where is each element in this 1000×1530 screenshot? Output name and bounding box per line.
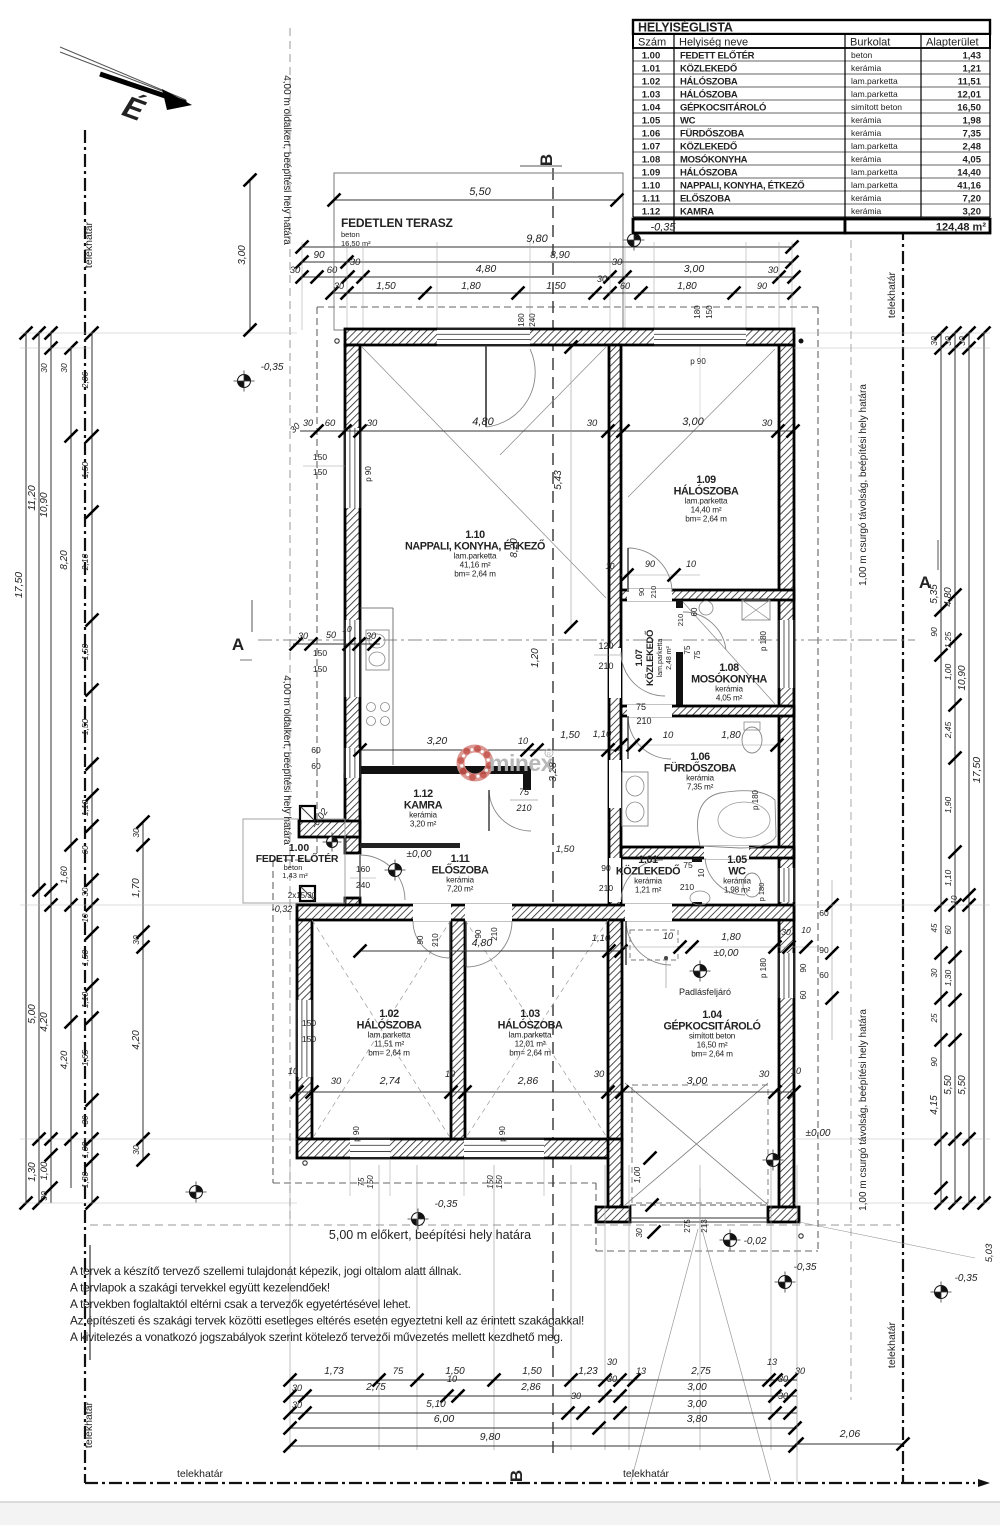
svg-text:HÁLÓSZOBA: HÁLÓSZOBA [680,88,738,100]
svg-text:30: 30 [768,265,779,276]
svg-text:-0,35: -0,35 [955,1273,978,1284]
svg-text:150: 150 [313,452,327,462]
svg-text:1,65: 1,65 [80,1049,90,1066]
svg-text:150: 150 [302,1034,316,1044]
svg-text:4,80: 4,80 [472,937,493,949]
svg-text:210: 210 [676,614,685,627]
svg-text:210: 210 [599,883,613,893]
svg-text:30: 30 [366,631,376,641]
svg-text:30: 30 [367,418,378,429]
svg-text:A kivitelezés a vonatkozó jogs: A kivitelezés a vonatkozó jogszabályok s… [70,1330,563,1344]
svg-text:A tervek a készítő tervező sze: A tervek a készítő tervező szellemi tula… [70,1264,461,1278]
svg-text:Helyiség neve: Helyiség neve [679,37,748,49]
svg-text:10: 10 [697,868,706,877]
svg-text:90: 90 [799,963,808,972]
svg-text:lam.parketta: lam.parketta [851,180,898,190]
svg-text:10: 10 [663,730,674,741]
svg-text:10: 10 [288,1066,298,1076]
svg-text:1.04: 1.04 [702,1009,722,1021]
svg-text:1,10: 1,10 [592,933,611,944]
svg-text:210: 210 [598,661,613,671]
svg-text:13: 13 [767,1357,777,1367]
svg-text:1,73: 1,73 [324,1366,344,1377]
svg-text:simított beton: simított beton [851,102,902,112]
svg-text:-0,35: -0,35 [650,222,676,234]
svg-text:30: 30 [81,887,90,896]
svg-text:1.06: 1.06 [690,751,710,763]
svg-text:1.08: 1.08 [719,662,739,674]
svg-text:lam.parketta: lam.parketta [851,76,898,86]
svg-text:30: 30 [930,968,939,977]
svg-text:p 90: p 90 [364,466,373,482]
svg-text:30: 30 [303,418,313,428]
svg-text:KÖZLEKEDŐ: KÖZLEKEDŐ [680,140,737,152]
svg-text:kerámia: kerámia [409,811,437,820]
svg-text:13: 13 [636,1366,646,1376]
svg-text:1,30: 1,30 [27,1162,38,1182]
svg-text:-0,35: -0,35 [261,362,284,373]
svg-text:kerámia: kerámia [851,154,882,164]
svg-text:10: 10 [791,1066,801,1076]
svg-text:1,25: 1,25 [943,631,953,648]
svg-text:10: 10 [81,913,90,922]
svg-text:Alapterület: Alapterület [926,37,979,49]
svg-text:1,43 m²: 1,43 m² [282,871,308,880]
svg-text:75: 75 [683,645,692,654]
svg-text:30: 30 [131,1145,141,1155]
svg-text:60: 60 [311,761,321,771]
svg-text:30: 30 [594,1069,605,1080]
svg-text:60: 60 [944,925,953,934]
svg-text:A: A [232,635,244,654]
svg-text:30: 30 [587,418,598,429]
svg-text:60: 60 [819,970,829,980]
svg-text:A tervlapok a szakági tervekke: A tervlapok a szakági tervekkel együtt k… [70,1281,330,1295]
svg-text:9,80: 9,80 [480,1431,501,1443]
svg-text:30: 30 [781,927,791,937]
svg-text:1.07: 1.07 [634,649,645,666]
svg-text:30: 30 [778,1391,788,1401]
svg-text:2,86: 2,86 [517,1075,539,1087]
svg-text:1,20: 1,20 [530,648,541,668]
svg-text:2,86: 2,86 [520,1382,541,1393]
svg-text:10,90: 10,90 [39,492,50,517]
svg-text:telekhatár: telekhatár [623,1468,670,1480]
svg-text:5,50: 5,50 [957,1075,968,1095]
svg-text:10: 10 [606,562,615,571]
svg-text:FÜRDŐSZOBA: FÜRDŐSZOBA [680,127,744,139]
svg-text:150: 150 [495,1175,504,1189]
svg-text:3,00: 3,00 [687,1399,707,1410]
svg-text:KAMRA: KAMRA [680,206,714,217]
svg-text:90: 90 [645,559,655,569]
svg-text:30: 30 [331,1076,342,1087]
svg-text:7,20 m²: 7,20 m² [447,885,474,894]
svg-text:10: 10 [686,559,696,569]
svg-text:90: 90 [601,863,611,873]
svg-text:90: 90 [929,1057,939,1067]
svg-text:3,00: 3,00 [687,1382,707,1393]
svg-text:30: 30 [298,631,308,641]
svg-text:lam.parketta: lam.parketta [454,552,497,561]
svg-text:1,50: 1,50 [80,643,90,660]
svg-text:30: 30 [59,363,69,373]
svg-text:10,90: 10,90 [957,665,968,690]
svg-text:210: 210 [515,803,531,813]
svg-text:30: 30 [759,1069,770,1080]
svg-text:1,00: 1,00 [943,663,953,680]
svg-text:41,16 m²: 41,16 m² [460,561,491,570]
svg-text:30: 30 [607,1374,617,1384]
svg-text:kerámia: kerámia [723,877,751,886]
svg-text:telekhatár: telekhatár [886,1321,898,1368]
svg-text:1.05: 1.05 [642,115,661,126]
svg-text:30: 30 [795,1366,805,1376]
svg-text:1,10: 1,10 [80,799,90,816]
svg-text:1.09: 1.09 [642,167,661,178]
svg-text:4,05: 4,05 [963,154,982,165]
svg-text:kerámia: kerámia [686,774,714,783]
svg-text:75: 75 [393,1366,404,1377]
svg-text:2,48 m²: 2,48 m² [666,645,673,669]
svg-text:1.01: 1.01 [642,63,661,74]
svg-text:Szám: Szám [638,37,666,49]
svg-text:5,50: 5,50 [943,1075,954,1095]
svg-text:1.11: 1.11 [451,853,470,865]
svg-text:telekhatár: telekhatár [886,271,898,318]
svg-text:30: 30 [292,1400,302,1410]
svg-text:7,20: 7,20 [963,193,982,204]
svg-text:11,20: 11,20 [26,485,38,511]
svg-text:2,48: 2,48 [963,141,982,152]
svg-text:p 180: p 180 [759,957,768,978]
svg-text:90: 90 [313,250,325,261]
svg-text:A tervekben foglaltaktól eltér: A tervekben foglaltaktól eltérni csak a … [70,1297,411,1311]
svg-text:beton: beton [341,230,360,239]
svg-text:1,10: 1,10 [593,729,612,740]
svg-text:1,80: 1,80 [721,932,741,943]
svg-text:10: 10 [663,931,673,941]
svg-text:8,90: 8,90 [550,250,570,261]
svg-text:3,80: 3,80 [687,1413,708,1425]
svg-text:lam.parketta: lam.parketta [851,167,898,177]
svg-text:1.01: 1.01 [638,854,658,866]
svg-text:14,40 m²: 14,40 m² [691,506,722,515]
svg-text:KÖZLEKEDŐ: KÖZLEKEDŐ [644,630,656,686]
svg-text:kerámia: kerámia [851,206,882,216]
svg-text:30: 30 [612,257,623,268]
svg-text:1.02: 1.02 [379,1008,399,1020]
svg-text:4,20: 4,20 [39,1012,50,1032]
svg-text:1.10: 1.10 [465,529,485,541]
svg-text:5,43: 5,43 [553,470,564,490]
svg-text:4,05 m²: 4,05 m² [716,694,743,703]
svg-text:1,21 m²: 1,21 m² [635,886,662,895]
svg-text:60: 60 [325,418,336,429]
svg-text:1,90: 1,90 [943,796,953,813]
svg-text:3,20: 3,20 [427,735,448,747]
svg-text:7,35: 7,35 [963,128,982,139]
svg-text:1.03: 1.03 [642,89,661,100]
svg-text:kerámia: kerámia [851,128,882,138]
svg-text:30: 30 [290,265,301,276]
svg-text:1,50: 1,50 [376,281,396,292]
svg-text:1,50: 1,50 [560,730,580,741]
svg-text:30: 30 [957,336,967,346]
svg-text:p 90: p 90 [690,357,706,366]
svg-text:150: 150 [486,1175,495,1189]
svg-text:30: 30 [943,336,953,346]
svg-text:10: 10 [950,895,959,904]
svg-text:HÁLÓSZOBA: HÁLÓSZOBA [680,166,738,178]
svg-text:60: 60 [81,845,90,854]
svg-text:6,00: 6,00 [434,1413,455,1425]
svg-text:50: 50 [326,630,336,640]
svg-text:KÖZLEKEDŐ: KÖZLEKEDŐ [680,62,737,74]
svg-text:1.08: 1.08 [642,154,661,165]
svg-text:Padlásfeljáró: Padlásfeljáró [679,987,731,997]
svg-text:2,75: 2,75 [365,1382,386,1393]
svg-text:bm= 2,64 m: bm= 2,64 m [509,1049,551,1058]
svg-text:90: 90 [416,935,425,944]
svg-text:30: 30 [292,1383,302,1393]
svg-text:bm= 2,64 m: bm= 2,64 m [685,515,727,524]
svg-text:9,80: 9,80 [526,233,548,245]
svg-text:1.04: 1.04 [642,102,661,113]
svg-text:beton: beton [851,50,873,60]
svg-text:kerámia: kerámia [715,685,743,694]
svg-text:1,23: 1,23 [578,1366,598,1377]
svg-text:210: 210 [680,882,694,892]
svg-text:210: 210 [636,716,651,726]
svg-text:275: 275 [683,1219,692,1233]
svg-text:1,00 m csurgó távolság, beépít: 1,00 m csurgó távolság, beépítési hely h… [858,1009,869,1211]
svg-text:2,10: 2,10 [80,553,90,571]
svg-text:1,70: 1,70 [131,878,142,898]
svg-text:4,20: 4,20 [131,1030,142,1050]
svg-text:90: 90 [757,281,767,291]
svg-text:2,06: 2,06 [80,371,90,389]
svg-text:1,50: 1,50 [80,461,90,478]
svg-text:41,16: 41,16 [957,180,981,191]
svg-text:1,50: 1,50 [80,949,90,966]
svg-text:-0,02: -0,02 [744,1236,767,1247]
svg-text:14,40: 14,40 [957,167,981,178]
svg-text:17,50: 17,50 [971,757,983,783]
svg-text:30: 30 [929,336,939,346]
svg-text:1,00: 1,00 [632,1166,642,1183]
svg-text:10: 10 [801,925,811,935]
svg-text:30: 30 [607,1357,617,1367]
svg-text:1.10: 1.10 [642,180,661,191]
svg-text:60: 60 [311,745,321,755]
svg-text:1.06: 1.06 [642,128,661,139]
svg-text:p 90: p 90 [498,1126,507,1142]
svg-text:30: 30 [131,828,141,838]
svg-text:11,51 m²: 11,51 m² [374,1040,405,1049]
svg-text:p 180: p 180 [759,630,768,651]
svg-text:5,10: 5,10 [426,1399,446,1410]
svg-text:8,20: 8,20 [509,538,520,558]
svg-text:160: 160 [356,864,370,874]
svg-text:1,50: 1,50 [80,718,90,735]
svg-text:60: 60 [799,990,808,999]
svg-text:1,80: 1,80 [677,281,697,292]
svg-text:8,20: 8,20 [59,550,70,570]
svg-text:lam.parketta: lam.parketta [368,1031,411,1040]
svg-text:1,80: 1,80 [461,281,481,292]
svg-text:150: 150 [313,664,327,674]
svg-text:kerámia: kerámia [446,876,474,885]
svg-text:3,20 m²: 3,20 m² [410,820,437,829]
svg-text:1.07: 1.07 [642,141,661,152]
svg-text:150: 150 [366,1175,375,1189]
svg-text:210: 210 [431,933,440,947]
svg-text:150: 150 [313,648,327,658]
svg-text:1.02: 1.02 [642,76,661,87]
svg-text:kerámia: kerámia [634,877,662,886]
svg-text:4,80: 4,80 [472,416,494,428]
svg-text:p 90: p 90 [352,1126,361,1142]
svg-text:±0,00: ±0,00 [714,948,739,959]
svg-text:1.03: 1.03 [520,1008,540,1020]
svg-text:3,00: 3,00 [237,245,248,265]
svg-text:1.05: 1.05 [727,854,747,866]
svg-text:1,00: 1,00 [80,1141,90,1158]
svg-text:Az építészeti és szakági terve: Az építészeti és szakági tervek közötti … [70,1314,584,1328]
svg-text:3,00: 3,00 [682,416,704,428]
svg-text:1,30: 1,30 [943,969,953,986]
svg-text:1,10: 1,10 [80,991,90,1008]
svg-text:WC: WC [680,115,696,126]
svg-text:1,21: 1,21 [963,63,982,74]
svg-text:4,00 m oldalkert, beépítési he: 4,00 m oldalkert, beépítési hely határa [281,675,292,845]
svg-text:210: 210 [649,586,658,599]
svg-text:12,01 m²: 12,01 m² [515,1040,546,1049]
svg-text:30: 30 [597,274,607,284]
svg-text:180: 180 [517,313,526,327]
svg-text:R: R [547,752,551,758]
svg-text:HÁLÓSZOBA: HÁLÓSZOBA [680,75,738,87]
svg-text:minex: minex [489,750,554,776]
svg-text:FEDETT ELŐTÉR: FEDETT ELŐTÉR [680,49,755,61]
svg-text:75: 75 [357,1177,366,1186]
svg-text:10: 10 [445,1069,455,1079]
svg-text:75: 75 [636,702,646,712]
svg-text:kerámia: kerámia [851,115,882,125]
svg-text:75: 75 [683,860,693,870]
svg-text:FEDETLEN TERASZ: FEDETLEN TERASZ [341,216,453,230]
svg-text:HELYISÉGLISTA: HELYISÉGLISTA [638,20,733,35]
svg-text:1.12: 1.12 [642,206,661,217]
svg-text:1.12: 1.12 [413,788,433,800]
svg-text:213: 213 [700,1219,709,1233]
svg-text:telekhatár: telekhatár [83,221,95,268]
svg-text:16,50 m²: 16,50 m² [697,1041,728,1050]
svg-text:1,50: 1,50 [522,1366,542,1377]
svg-text:30: 30 [81,1115,90,1124]
svg-text:MOSÓKONYHA: MOSÓKONYHA [680,153,748,165]
svg-text:A: A [919,573,931,592]
svg-text:5,50: 5,50 [469,186,491,198]
svg-text:1,00: 1,00 [39,1161,50,1180]
svg-text:2,06: 2,06 [839,1428,861,1440]
svg-text:±0,00: ±0,00 [806,1128,831,1139]
svg-text:180: 180 [693,305,702,319]
svg-text:lam.parketta: lam.parketta [685,497,728,506]
svg-text:10: 10 [518,736,528,746]
svg-text:1,80: 1,80 [721,730,741,741]
svg-text:1,10: 1,10 [943,869,953,886]
svg-text:p 180: p 180 [757,883,766,902]
svg-text:3,20: 3,20 [963,206,982,217]
svg-text:telekhatár: telekhatár [83,1401,95,1448]
svg-text:2,45: 2,45 [943,721,953,739]
svg-text:p 180: p 180 [751,789,760,810]
svg-text:30: 30 [778,1374,788,1384]
svg-text:30: 30 [39,1191,49,1201]
svg-text:10: 10 [447,1374,457,1384]
svg-text:25: 25 [930,1013,939,1023]
svg-text:1,00 m csurgó távolság, beépít: 1,00 m csurgó távolság, beépítési hely h… [858,384,869,586]
svg-text:bm= 2,64 m: bm= 2,64 m [454,570,496,579]
svg-text:11,51: 11,51 [958,76,982,87]
svg-text:lam.parketta: lam.parketta [657,639,664,678]
svg-text:telekhatár: telekhatár [177,1468,224,1480]
svg-text:150: 150 [302,1018,316,1028]
svg-text:2,75: 2,75 [690,1366,711,1377]
svg-text:30: 30 [350,257,361,268]
svg-text:2,74: 2,74 [379,1075,401,1087]
svg-text:lam.parketta: lam.parketta [851,89,898,99]
svg-text:bm= 2,64 m: bm= 2,64 m [691,1050,733,1059]
svg-text:3,00: 3,00 [687,1075,708,1087]
svg-text:1.00: 1.00 [642,50,661,61]
svg-text:150: 150 [313,467,327,477]
svg-text:120: 120 [598,641,613,651]
svg-text:5,00 m előkert, beépítési hely: 5,00 m előkert, beépítési hely határa [329,1228,531,1242]
svg-text:17,50: 17,50 [13,572,25,598]
svg-text:-0,32: -0,32 [272,904,293,914]
svg-text:1,50: 1,50 [556,844,575,855]
svg-text:3,00: 3,00 [684,263,705,275]
svg-text:-0,35: -0,35 [435,1199,458,1210]
svg-text:kerámia: kerámia [851,193,882,203]
svg-text:240: 240 [528,313,537,327]
svg-text:75: 75 [519,787,530,797]
svg-text:60: 60 [327,265,338,276]
svg-text:kerámia: kerámia [851,63,882,73]
svg-text:90: 90 [929,627,939,637]
svg-text:lam.parketta: lam.parketta [851,141,898,151]
svg-text:30: 30 [634,1228,644,1238]
svg-text:Burkolat: Burkolat [850,37,890,49]
svg-text:12,01: 12,01 [957,89,981,100]
svg-text:5,03: 5,03 [984,1243,995,1262]
svg-text:90: 90 [819,945,829,955]
svg-text:7,35 m²: 7,35 m² [687,783,714,792]
svg-text:B: B [537,154,556,166]
svg-text:2x15/30: 2x15/30 [288,891,317,900]
svg-text:5,00: 5,00 [27,1004,38,1024]
svg-text:±0,00: ±0,00 [407,849,432,860]
svg-text:ELŐSZOBA: ELŐSZOBA [680,192,731,204]
svg-text:1,50: 1,50 [546,281,566,292]
svg-text:4,15: 4,15 [929,1095,940,1115]
svg-text:240: 240 [356,880,370,890]
svg-text:30: 30 [334,281,344,291]
svg-text:B: B [507,1470,526,1482]
